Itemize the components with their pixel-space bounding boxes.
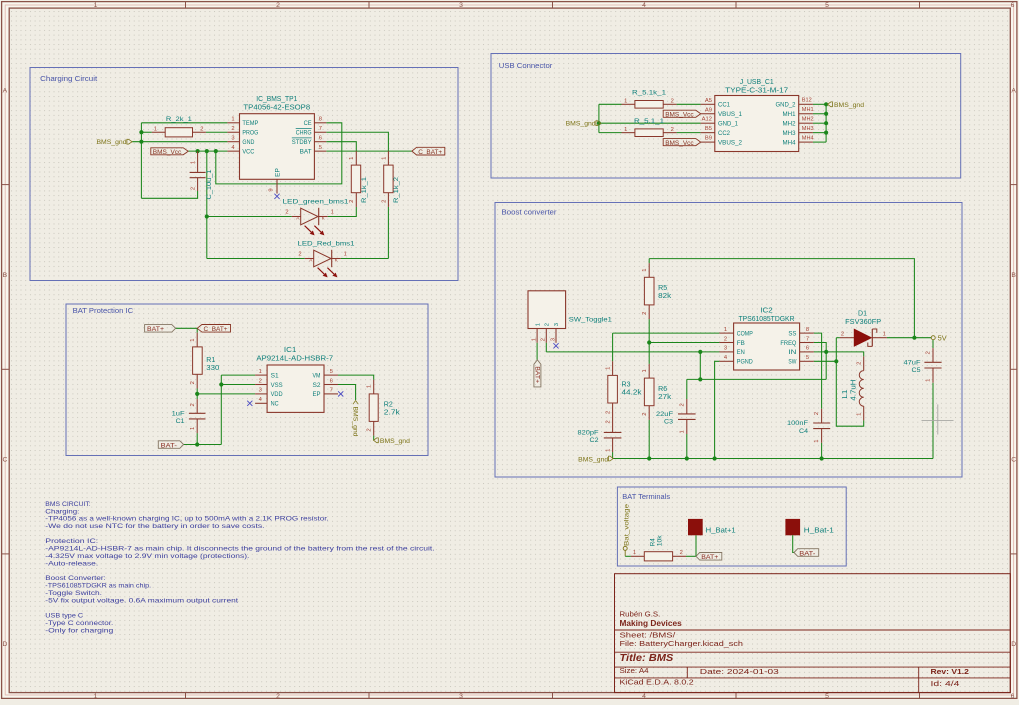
L1 pin numbers xyxy=(857,362,863,416)
R6 value 27k xyxy=(658,394,672,401)
junction node PROG xyxy=(139,130,143,134)
R3 pin numbers xyxy=(605,367,611,414)
R5 pin numbers xyxy=(642,268,648,314)
svg-text:GND: GND xyxy=(242,139,254,146)
svg-text:C_10u_1: C_10u_1 xyxy=(206,169,213,199)
svg-text:SW: SW xyxy=(788,359,797,366)
svg-text:2: 2 xyxy=(349,200,355,203)
hierarchical label BMS_Vcc (usb top) xyxy=(663,110,701,118)
svg-text:1: 1 xyxy=(814,439,820,442)
svg-text:2: 2 xyxy=(642,412,648,415)
wire EN branch down xyxy=(699,352,701,380)
resistor R4 body xyxy=(631,552,686,561)
wire R_5.1_1 to CC2 xyxy=(677,132,701,134)
wire SW row xyxy=(814,360,837,362)
IC2 left pin names xyxy=(737,330,753,365)
junction BAT- at C1 xyxy=(195,442,199,446)
wire R5-R6 vertical xyxy=(648,319,650,364)
svg-text:8: 8 xyxy=(806,327,809,333)
svg-text:B5: B5 xyxy=(705,126,712,132)
svg-text:2: 2 xyxy=(259,378,262,384)
R_5.1_1 pin numbers xyxy=(624,127,674,133)
svg-text:EN: EN xyxy=(737,349,745,356)
wire C3 riser xyxy=(686,379,688,399)
svg-text:3: 3 xyxy=(259,388,262,394)
wire MH4 xyxy=(813,141,826,143)
wire node to R1 xyxy=(196,328,198,332)
R_1k_1 pin numbers xyxy=(349,157,355,203)
svg-text:MH4: MH4 xyxy=(802,135,814,141)
svg-text:6: 6 xyxy=(330,378,333,384)
section title BAT Terminals xyxy=(622,494,670,501)
svg-text:Rev: V1.2: Rev: V1.2 xyxy=(931,667,969,676)
svg-text:6: 6 xyxy=(806,346,809,352)
no-connect on switch pin 3 xyxy=(553,343,558,348)
wire BMS_gnd vertical (usb) xyxy=(598,104,600,132)
title block file xyxy=(620,639,743,648)
C1 reference label xyxy=(176,418,185,425)
svg-text:R6: R6 xyxy=(658,386,667,393)
C5 reference label xyxy=(912,367,921,374)
svg-text:TP4056-42-ESOP8: TP4056-42-ESOP8 xyxy=(243,105,310,112)
svg-text:2: 2 xyxy=(605,411,611,414)
D1 value FSV360FP xyxy=(845,319,881,326)
junction rail C4 xyxy=(820,456,824,460)
svg-text:1: 1 xyxy=(642,369,648,372)
wire R4 to BAT+ label xyxy=(686,555,696,557)
svg-text:TEMP: TEMP xyxy=(242,120,258,127)
R_5.1k_1 value label xyxy=(632,89,666,96)
svg-text:1: 1 xyxy=(633,550,636,556)
svg-text:BAT Terminals: BAT Terminals xyxy=(622,494,670,501)
svg-text:BMS_Vcc: BMS_Vcc xyxy=(665,140,694,147)
title block date xyxy=(700,667,779,676)
R1 reference label xyxy=(206,357,215,364)
wire C4 to gnd rail xyxy=(821,443,823,459)
svg-text:2: 2 xyxy=(545,323,551,326)
svg-text:CE: CE xyxy=(304,120,313,127)
svg-text:TPS61085TDGKR: TPS61085TDGKR xyxy=(739,316,795,323)
svg-text:1: 1 xyxy=(624,127,627,133)
svg-text:1: 1 xyxy=(642,268,648,271)
svg-text:VSS: VSS xyxy=(271,382,284,389)
svg-text:2: 2 xyxy=(605,420,611,423)
SW_Toggle1 name label xyxy=(569,317,612,324)
svg-text:A: A xyxy=(3,87,8,94)
svg-text:1: 1 xyxy=(883,332,886,338)
svg-text:H_Bat-1: H_Bat-1 xyxy=(804,527,834,534)
svg-text:2: 2 xyxy=(925,351,931,354)
svg-text:47uF: 47uF xyxy=(904,360,921,367)
title block author Ruben G.S. xyxy=(620,609,661,618)
svg-text:2: 2 xyxy=(841,332,844,338)
no-connect on NC pin xyxy=(247,401,252,406)
no-connect on EP pin (IC1) xyxy=(338,391,343,396)
svg-text:22uF: 22uF xyxy=(656,411,673,418)
wire R_2k_1 to PROG pin xyxy=(206,131,228,133)
title block title BMS xyxy=(620,653,674,664)
svg-text:6: 6 xyxy=(1011,693,1015,700)
svg-text:VBUS_1: VBUS_1 xyxy=(718,111,742,118)
junction rail PGND xyxy=(713,456,717,460)
svg-text:2: 2 xyxy=(276,2,280,9)
svg-text:1: 1 xyxy=(679,430,685,433)
junction input node xyxy=(698,377,702,381)
section title Boost converter xyxy=(502,210,558,217)
svg-text:8: 8 xyxy=(319,117,322,123)
capacitor C4 xyxy=(813,409,830,443)
junction VCC at C_10u_1 xyxy=(196,149,200,153)
junction rail R6 xyxy=(647,456,651,460)
wire C1 to BAT- row xyxy=(196,433,198,444)
C_10u_1 value label xyxy=(206,169,213,199)
svg-text:CC1: CC1 xyxy=(718,102,730,109)
wire input node row xyxy=(687,378,826,380)
IC_BMS_TP1 right pin numbers xyxy=(319,117,322,151)
C5 pin numbers xyxy=(925,351,931,382)
junction rail C3 xyxy=(685,456,689,460)
wire SW to D1 and L1 xyxy=(836,338,863,427)
wire to R_5.1k_1 pin 1 xyxy=(599,103,622,105)
section box USB Connector xyxy=(491,54,961,179)
svg-text:1: 1 xyxy=(154,126,157,132)
IC1 right pin numbers xyxy=(330,369,333,394)
junction VSS node xyxy=(219,382,223,386)
svg-text:Charging:: Charging: xyxy=(45,508,79,515)
svg-text:MH2: MH2 xyxy=(783,121,796,128)
global label BAT+ (boost, vertical) xyxy=(533,360,541,387)
R_1k_1 value label xyxy=(361,177,368,203)
C4 pin numbers xyxy=(814,412,820,443)
svg-text:C1: C1 xyxy=(176,418,185,425)
resistor R6 body xyxy=(644,364,654,420)
svg-text:6: 6 xyxy=(1011,2,1015,9)
svg-text:Rubén G.S.: Rubén G.S. xyxy=(620,609,661,618)
resistor R_5.1_1 body xyxy=(622,129,677,137)
svg-text:MH3: MH3 xyxy=(802,126,814,132)
power symbol 5V xyxy=(931,335,947,342)
svg-text:3: 3 xyxy=(724,346,727,352)
svg-text:PROG: PROG xyxy=(242,130,258,137)
section box Boost converter xyxy=(495,203,962,478)
IC_BMS_TP1 right pin names xyxy=(292,120,312,155)
svg-text:2: 2 xyxy=(671,99,674,105)
svg-text:4: 4 xyxy=(642,693,646,700)
J_USB_C1 right pin numbers xyxy=(802,98,814,142)
junction MH2 xyxy=(824,121,828,125)
svg-text:EP: EP xyxy=(313,391,321,398)
IC_BMS_TP1 CHRG overline xyxy=(296,127,312,129)
svg-text:FB: FB xyxy=(737,340,745,347)
global label BAT- (terminals) xyxy=(794,549,819,558)
R6 reference label xyxy=(658,386,667,393)
IC1 right pin names xyxy=(313,372,321,398)
svg-text:1: 1 xyxy=(344,252,347,258)
svg-text:Charging Circuit: Charging Circuit xyxy=(40,76,97,83)
svg-text:-Only for charging: -Only for charging xyxy=(45,627,113,634)
connector J_USB_C1 body xyxy=(715,96,799,152)
svg-text:82k: 82k xyxy=(658,293,672,300)
svg-text:-AP9214L-AD-HSBR-7 as main chi: -AP9214L-AD-HSBR-7 as main chip. It disc… xyxy=(45,545,435,552)
wire S1-VSS vertical xyxy=(220,375,222,444)
wire switch pin2 to EN xyxy=(545,343,547,352)
IC1 reference xyxy=(284,347,297,354)
svg-text:2: 2 xyxy=(367,428,373,431)
wire LED_Red cathode xyxy=(341,258,389,260)
IC1 value AP9214L-AD-HSBR-7 xyxy=(256,356,333,363)
svg-text:-TP4056 as a well-known chargi: -TP4056 as a well-known charging IC, up … xyxy=(45,516,329,523)
R_1k_2 value label xyxy=(393,177,400,203)
svg-text:1: 1 xyxy=(724,327,727,333)
title block sheet xyxy=(620,631,677,640)
svg-text:GND_2: GND_2 xyxy=(776,102,796,109)
R4 reference label xyxy=(649,538,656,547)
svg-text:BMS_gnd: BMS_gnd xyxy=(380,438,410,445)
svg-text:2: 2 xyxy=(679,403,685,406)
svg-text:1: 1 xyxy=(94,693,98,700)
svg-text:C_BAT+: C_BAT+ xyxy=(418,149,442,156)
svg-text:Protection IC:: Protection IC: xyxy=(45,538,98,545)
junction MH3 xyxy=(824,131,828,135)
R2 value 2.7k xyxy=(384,409,401,416)
wire C5 top xyxy=(932,340,934,349)
wire GND_2 to BMS_gnd xyxy=(813,103,826,105)
D1 reference xyxy=(858,310,867,317)
mounting pad H_Bat+1 xyxy=(688,519,703,535)
svg-text:1: 1 xyxy=(532,338,538,341)
svg-text:2: 2 xyxy=(724,336,727,342)
hierarchical label C_BAT+ (protection) xyxy=(197,325,230,334)
svg-text:6: 6 xyxy=(319,136,322,142)
title block revision xyxy=(931,667,969,676)
L1 value 4.7uH xyxy=(850,380,857,401)
wire STDBY to R_1k_1 xyxy=(326,142,356,151)
svg-text:KiCad E.D.A. 8.0.2: KiCad E.D.A. 8.0.2 xyxy=(620,677,694,686)
IC2 pin stubs xyxy=(719,333,813,361)
svg-text:Making Devices: Making Devices xyxy=(620,619,683,628)
section box BAT Terminals xyxy=(617,487,846,566)
svg-text:NC: NC xyxy=(271,401,279,408)
section title Charging Circuit xyxy=(40,76,97,83)
svg-text:VM: VM xyxy=(313,372,321,379)
svg-text:R_2k_1: R_2k_1 xyxy=(166,116,192,123)
svg-text:R4: R4 xyxy=(649,538,656,547)
svg-text:R_5.1k_1: R_5.1k_1 xyxy=(632,89,666,96)
SW_Toggle1 pin stubs xyxy=(537,329,556,343)
svg-text:2: 2 xyxy=(276,693,280,700)
svg-text:1: 1 xyxy=(624,99,627,105)
svg-text:VBUS_2: VBUS_2 xyxy=(718,139,742,146)
svg-text:-Auto-release.: -Auto-release. xyxy=(45,560,98,567)
R_2k_1 pin numbers xyxy=(154,126,204,132)
wire bottom of C_10u_1 xyxy=(141,191,197,198)
L1 reference label xyxy=(842,389,849,398)
svg-text:-Type C connector.: -Type C connector. xyxy=(45,620,113,627)
wire R5 top stub xyxy=(648,259,650,264)
junction BMS_gnd usb xyxy=(597,121,601,125)
inductor L1 symbol xyxy=(859,356,863,420)
capacitor C3 xyxy=(678,399,696,434)
C4 reference label xyxy=(799,428,808,435)
wire BAT+ to C_BAT+ node xyxy=(176,327,198,329)
svg-text:CC2: CC2 xyxy=(718,130,730,137)
global label BMS_gnd (usb right) xyxy=(828,102,865,109)
hierarchical label BMS_Vcc (charging) xyxy=(151,148,188,156)
wire gnd rail xyxy=(613,458,933,460)
LED_green_bms1 pin numbers xyxy=(285,210,333,216)
wire VSS row xyxy=(221,384,255,386)
hierarchical label BMS_Vcc (usb bottom) xyxy=(663,139,701,147)
svg-text:4.7uH: 4.7uH xyxy=(850,380,857,401)
junction SW node xyxy=(834,359,838,363)
resistor R2 body xyxy=(369,380,378,436)
wire MH2 xyxy=(813,122,826,124)
junction EN node xyxy=(698,350,702,354)
R3 value 44.2k xyxy=(622,390,643,397)
svg-text:7: 7 xyxy=(806,336,809,342)
svg-text:LED_green_bms1: LED_green_bms1 xyxy=(283,198,349,205)
svg-text:1: 1 xyxy=(190,338,196,341)
svg-text:A12: A12 xyxy=(702,117,712,123)
svg-text:D: D xyxy=(1011,641,1016,648)
resistor R_1k_1 body xyxy=(351,151,360,207)
IC_BMS_TP1 pin stubs xyxy=(227,123,326,194)
svg-text:BMS_Vcc: BMS_Vcc xyxy=(665,111,694,118)
svg-text:MH1: MH1 xyxy=(802,107,814,113)
svg-text:1: 1 xyxy=(857,413,863,416)
R_5.1_1 value label xyxy=(634,118,664,125)
wire R3 corner xyxy=(612,333,614,361)
IC2 right pin numbers xyxy=(806,327,809,361)
section title USB Connector xyxy=(499,63,553,70)
resistor R5 body xyxy=(644,263,654,319)
svg-text:3: 3 xyxy=(459,2,463,9)
IC2 value TPS61085TDGKR xyxy=(739,316,795,323)
svg-text:2: 2 xyxy=(541,338,547,341)
LED_Red_bms1 name label xyxy=(298,240,355,247)
svg-text:3: 3 xyxy=(459,693,463,700)
J_USB_C1 right pin names xyxy=(776,102,796,147)
C3 value 22uF xyxy=(656,411,673,418)
svg-text:9: 9 xyxy=(269,188,275,191)
svg-text:R2: R2 xyxy=(384,401,393,408)
svg-text:2: 2 xyxy=(671,127,674,133)
section box BAT Protection IC xyxy=(66,304,428,456)
C_10u_1 pin numbers xyxy=(190,161,196,190)
wire 5V stub xyxy=(914,337,931,339)
wire VCC-CE loop xyxy=(216,123,342,184)
wire FREQ jog xyxy=(814,343,826,380)
C5 value 47uF xyxy=(904,360,921,367)
svg-text:BMS_gnd: BMS_gnd xyxy=(578,456,608,463)
svg-text:BAT+: BAT+ xyxy=(701,554,718,561)
svg-text:BMS_Vcc: BMS_Vcc xyxy=(153,149,182,156)
D1 pin numbers xyxy=(841,332,886,338)
svg-text:-5V fix output voltage. 0.6A m: -5V fix output voltage. 0.6A maximum out… xyxy=(45,598,238,605)
svg-text:File: BatteryCharger.kicad_sch: File: BatteryCharger.kicad_sch xyxy=(620,639,743,648)
no-connect on EP pin xyxy=(274,194,279,199)
wire to LED_Red anode xyxy=(207,258,305,260)
wire S2 down xyxy=(338,385,356,401)
capacitor C2 xyxy=(604,432,622,452)
R2 reference label xyxy=(384,401,393,408)
svg-text:B9: B9 xyxy=(705,136,712,142)
wire MH3 xyxy=(813,132,826,134)
svg-text:H_Bat+1: H_Bat+1 xyxy=(706,527,736,534)
wire D1 cathode to 5V xyxy=(887,337,915,339)
svg-text:1: 1 xyxy=(94,2,98,9)
wire C3 to gnd rail xyxy=(686,434,688,459)
R5 reference label xyxy=(658,285,667,292)
wire TEMP pin 1 xyxy=(141,122,227,124)
switch SW_Toggle1 body xyxy=(528,291,566,329)
svg-text:Size: A4: Size: A4 xyxy=(620,666,649,675)
svg-text:COMP: COMP xyxy=(737,330,753,337)
wire R1 to VDD node xyxy=(196,389,198,394)
svg-text:R3: R3 xyxy=(622,382,631,389)
svg-text:7: 7 xyxy=(330,388,333,394)
svg-text:5: 5 xyxy=(825,693,829,700)
svg-text:LED_Red_bms1: LED_Red_bms1 xyxy=(298,240,355,247)
SW_Toggle1 pin names xyxy=(535,323,560,326)
svg-text:5: 5 xyxy=(825,2,829,9)
resistor R_2k_1 body xyxy=(152,128,206,137)
C2 value 820pF xyxy=(578,430,599,437)
svg-text:2: 2 xyxy=(814,412,820,415)
wire PGND down xyxy=(715,361,720,458)
svg-text:C2: C2 xyxy=(590,437,599,444)
svg-text:C: C xyxy=(2,457,7,464)
svg-text:2: 2 xyxy=(857,362,863,365)
junction MH1 xyxy=(824,112,828,116)
svg-text:BAT Protection IC: BAT Protection IC xyxy=(73,308,134,315)
svg-text:Title: BMS: Title: BMS xyxy=(620,653,674,664)
IC U2 IC1 AP9214L body xyxy=(267,365,324,412)
junction GND_2 node xyxy=(824,102,828,106)
svg-text:A9: A9 xyxy=(705,107,712,113)
wire VCC branch down to LEDs xyxy=(206,151,208,258)
R6 pin numbers xyxy=(642,369,648,415)
LED_green_bms1 name label xyxy=(283,198,349,205)
svg-text:C: C xyxy=(1011,457,1016,464)
svg-text:B12: B12 xyxy=(802,98,812,104)
svg-text:J_USB_C1: J_USB_C1 xyxy=(740,79,774,86)
cursor crosshair artifact xyxy=(922,404,954,434)
svg-text:Id: 4/4: Id: 4/4 xyxy=(931,679,960,688)
svg-text:10k: 10k xyxy=(657,534,664,546)
svg-text:44.2k: 44.2k xyxy=(622,390,643,397)
wire R6 to gnd rail xyxy=(648,420,650,459)
wire H_Bat+1 to BAT+ xyxy=(695,535,697,556)
IC1 left pin names xyxy=(271,372,284,407)
wire GND_1 pin A12 xyxy=(599,122,701,124)
J_USB_C1 reference xyxy=(740,79,774,86)
svg-text:1: 1 xyxy=(190,161,196,164)
title block border xyxy=(615,574,1011,693)
junction VCC at loop xyxy=(214,149,218,153)
wire FB row xyxy=(649,342,719,344)
svg-text:D1: D1 xyxy=(858,310,867,317)
svg-text:SW_Toggle1: SW_Toggle1 xyxy=(569,317,612,324)
wire R2 to BMS_gnd xyxy=(373,436,375,441)
title block row lines xyxy=(615,630,1011,693)
IC_BMS_TP1 pin 9 number xyxy=(269,188,275,191)
svg-text:Boost converter: Boost converter xyxy=(502,210,558,217)
svg-text:BMS_gnd: BMS_gnd xyxy=(834,102,864,109)
IC2 reference xyxy=(760,308,773,315)
svg-text:STDBY: STDBY xyxy=(292,139,312,146)
C1 value 1uF xyxy=(172,411,185,418)
